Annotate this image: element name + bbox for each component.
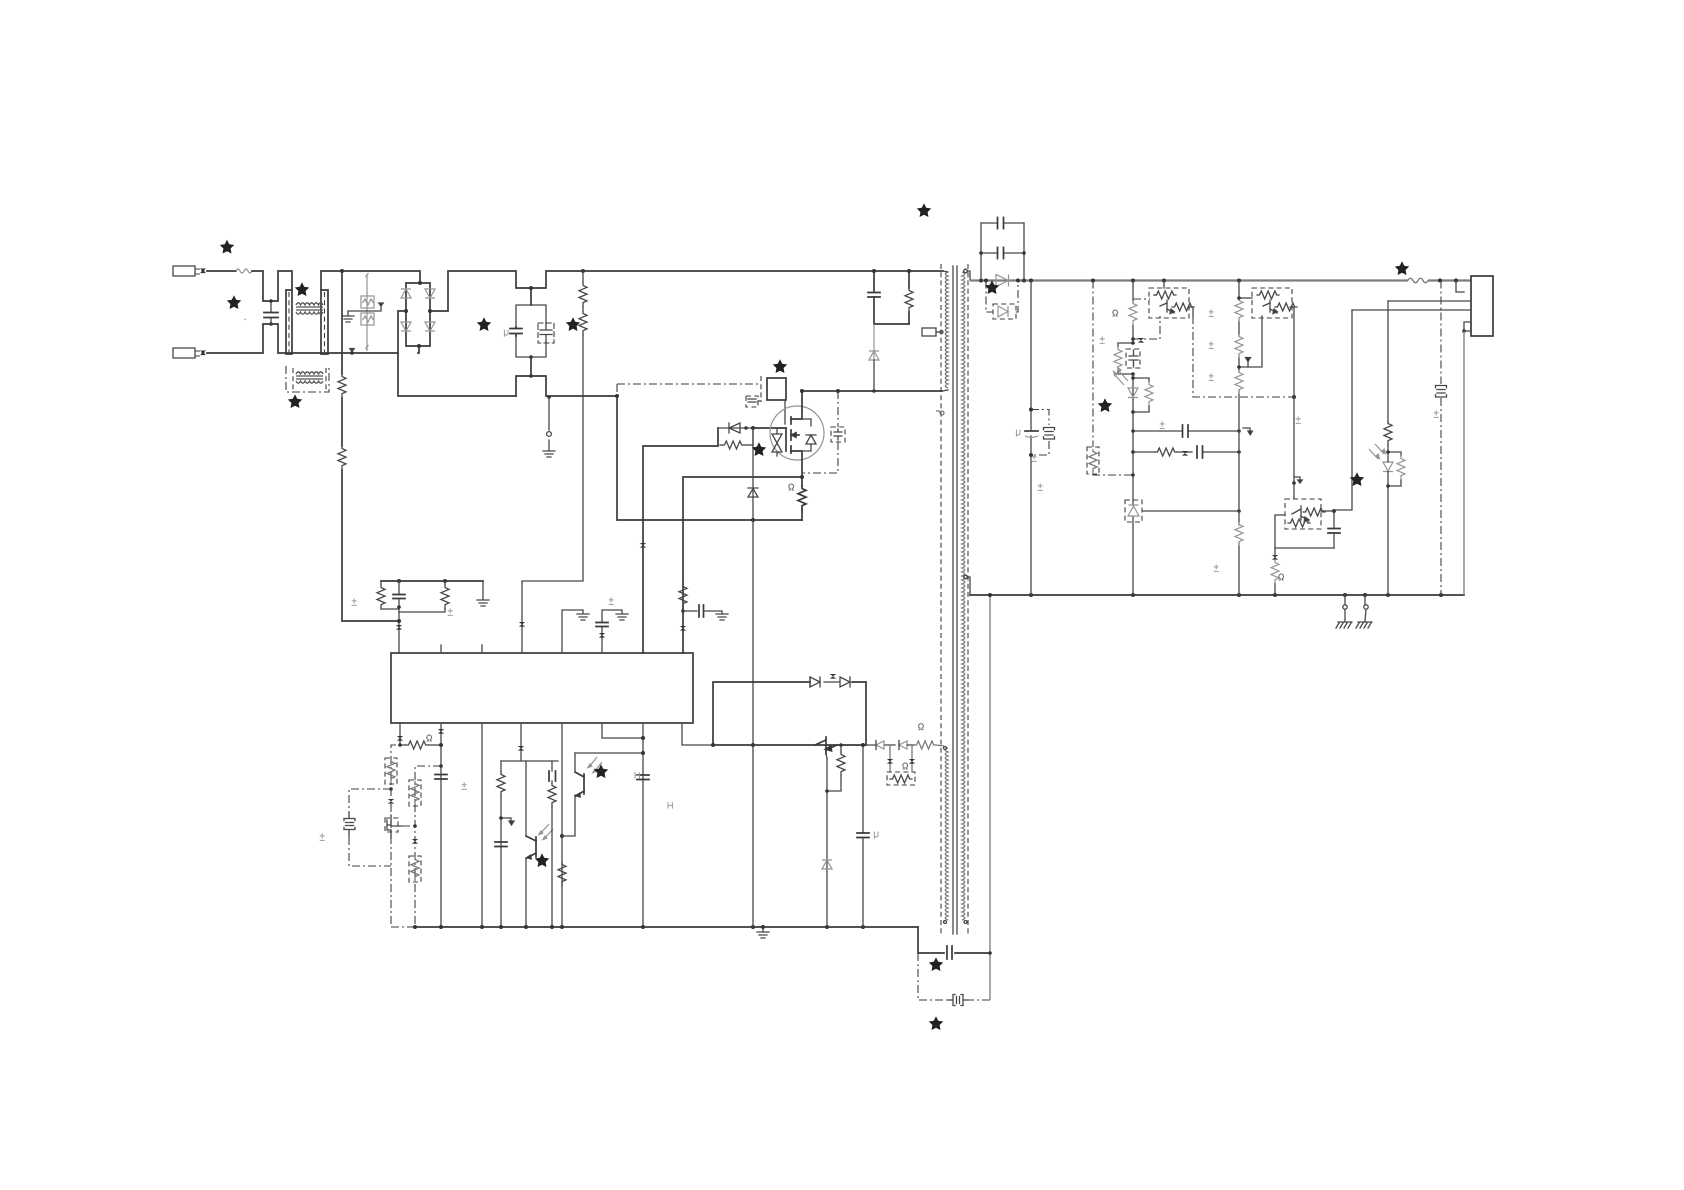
star 1 <box>220 240 234 254</box>
dashed resistor box RB4 <box>1087 447 1099 474</box>
PNP regulator box Q5 <box>1285 499 1325 529</box>
CY2 cap in dashed box <box>948 995 968 1006</box>
opto1 feed line <box>525 761 527 836</box>
feedback cap C14 <box>1328 511 1340 548</box>
bowtie on neutral near arrester <box>350 349 354 355</box>
jog wire under IC <box>501 760 558 762</box>
DC+ rail right of snubber <box>874 270 943 272</box>
secondary top pin <box>964 269 970 280</box>
ferrite bead on + rail <box>1408 278 1428 283</box>
wire bridge bottom stub <box>418 346 419 353</box>
dash-dot clamp connections <box>802 391 838 473</box>
Q5 base network <box>1275 515 1334 548</box>
choke lower coil pair <box>293 368 326 390</box>
IC vcc pin to aux wire <box>682 723 713 745</box>
driver input cap (dashed box) <box>746 396 761 407</box>
wire bridge plus up to DC+ <box>430 271 874 311</box>
greek omega label R21 <box>1279 574 1284 580</box>
output filter line x1031 <box>1030 281 1032 596</box>
gate clamp cap in dashed box <box>831 427 845 442</box>
feedback divider line x1133 <box>1132 281 1134 596</box>
gate zener stack on gate line <box>748 428 758 520</box>
IC pin x521 <box>520 723 522 761</box>
gate series diode D5 <box>718 423 753 433</box>
LED emission arrows <box>1114 367 1128 385</box>
primary pin marker <box>936 411 944 415</box>
RC pair cap dashed box C13 <box>1126 349 1140 368</box>
IC pin line x482 <box>481 723 483 927</box>
output rectifier D12 <box>996 275 1009 287</box>
aux series resistor R12 <box>914 741 944 749</box>
test bracket row1 <box>1243 428 1252 435</box>
driver dashed pin rail <box>760 376 762 402</box>
RC row right end to ground <box>482 581 484 599</box>
bulk capacitor C1 frame <box>516 305 546 357</box>
bridge mid nodes <box>404 309 408 313</box>
star 11 <box>1098 398 1112 412</box>
node RC row right <box>443 579 447 583</box>
ground RC row <box>477 600 489 606</box>
star 15 <box>535 853 549 867</box>
node drain <box>800 389 804 393</box>
bulk cap dashed twin C2 <box>538 323 554 343</box>
star 3 <box>295 282 309 296</box>
node on CS line <box>681 609 685 613</box>
resistor R8 <box>398 741 441 749</box>
wire N under choke <box>286 352 398 354</box>
resistor R20 <box>1235 522 1243 546</box>
IC pin stub tick 2 <box>481 645 483 653</box>
primary ground rail <box>415 926 918 928</box>
divider line x1239 <box>1238 281 1240 596</box>
bowtie on VCC feed <box>519 622 525 627</box>
capacitor C8 on x643 <box>637 775 649 780</box>
Q5 right node <box>1321 510 1334 512</box>
LED arrows <box>1369 444 1385 459</box>
greek omega label R8 <box>427 735 432 741</box>
transformer T1 dashed boundary <box>941 264 968 936</box>
bridge diode D2 <box>425 289 435 298</box>
aux winding <box>945 748 948 920</box>
resistor R3 <box>399 581 449 612</box>
test bracket on comp <box>499 816 514 825</box>
opto2 emitter wire <box>562 795 575 836</box>
bowtie on gate-feed pin <box>396 625 402 630</box>
output connector CN1 <box>1471 276 1493 336</box>
diode to drain wire <box>873 360 875 391</box>
transistor box Q4 <box>1237 288 1297 499</box>
bulk cap bottom node to DC- <box>516 357 617 396</box>
winding sense label box <box>922 328 943 336</box>
twin cap dashed box <box>1029 408 1055 458</box>
primary top hook <box>943 271 948 272</box>
aux supply wire <box>713 744 866 746</box>
filter cap C12 plates <box>1025 430 1038 432</box>
choke top coil pair <box>296 303 323 314</box>
secondary mid pin <box>964 575 970 595</box>
CS filter cap C4 <box>683 605 722 617</box>
snubber cap C5 <box>868 271 880 324</box>
base resistor R11 <box>827 743 845 791</box>
node DC+ at bleeder <box>581 269 585 273</box>
dashed resistor box RB2 <box>409 780 421 806</box>
star 14 <box>594 764 608 778</box>
polarity mark at J1 <box>200 269 206 274</box>
coupling row 2 R16 and cap <box>1131 446 1241 458</box>
gate-source zener pair <box>772 428 782 456</box>
star 7 <box>773 359 787 373</box>
star 13 <box>1350 472 1364 486</box>
IC pin line x643 <box>642 723 644 927</box>
opto1 light arrows <box>539 824 553 840</box>
Q4 emitter drop <box>1237 316 1262 369</box>
jog into tab <box>1456 281 1464 293</box>
RC row top wire <box>381 580 483 582</box>
dash-dot shield line <box>1440 281 1442 596</box>
common-mode choke LF1 right winding <box>321 290 328 354</box>
IC pin line x441 <box>440 723 442 927</box>
comp network R9 <box>497 761 505 927</box>
gray plus marks column <box>1032 309 1219 571</box>
bridge diode D4 <box>425 322 435 331</box>
RC pair R14 <box>1114 343 1133 374</box>
wire bridge minus to DC- rail <box>398 311 516 396</box>
dash-dot sense branch <box>391 745 396 926</box>
ground primary <box>757 925 769 938</box>
bridge rectifier BD1 frame <box>406 283 430 346</box>
zener D9 <box>822 860 832 869</box>
shield cap dashed box <box>1436 386 1447 398</box>
aux top hook <box>944 747 947 750</box>
ground CS cap <box>716 614 728 620</box>
transistor box Q3 <box>1149 281 1194 319</box>
loop diode D8 <box>824 677 850 687</box>
capacitor C6 on x441 <box>435 775 447 780</box>
connector wire pin3 <box>1388 300 1471 302</box>
bulk cap top node <box>530 288 532 305</box>
greek omega label R12 <box>918 724 923 730</box>
Q5 collector bracket <box>1292 477 1302 485</box>
ground at ref cap <box>616 614 628 620</box>
rail dots <box>979 279 1458 283</box>
node feed join <box>397 605 401 609</box>
star 5 <box>477 317 491 331</box>
greek omega label R6 <box>789 484 794 490</box>
secondary + rail <box>970 279 1471 281</box>
resistor R10 <box>558 862 566 886</box>
bulk cap C1 plates <box>510 327 522 336</box>
nodes x441 <box>439 743 443 747</box>
dash-dot from Q3 <box>1193 316 1294 397</box>
dashed resistor box RB1 <box>385 758 397 784</box>
snubber node dots <box>872 269 876 273</box>
common-mode choke LF1 left winding <box>286 290 292 354</box>
optocoupler U3 phototransistor <box>575 753 584 797</box>
greek mu label C1 <box>504 330 508 337</box>
wire gate to MOSFET <box>753 427 786 429</box>
connector J2 (AC neutral) <box>173 348 200 358</box>
gray link down from secondary ground <box>989 595 991 1000</box>
resistor R2 <box>377 581 399 609</box>
primary bottom hook <box>942 390 948 391</box>
node DC- at x617 <box>615 394 619 398</box>
opto2 collector wire <box>575 752 643 754</box>
MOV / surge arrester (light) <box>361 273 374 351</box>
dashed resistor box RB3 <box>409 856 421 882</box>
vertical link DC- to driver return <box>616 384 618 397</box>
star 10 <box>985 280 999 294</box>
opto feed line x1388 <box>1387 301 1389 595</box>
connector return line <box>1463 331 1465 595</box>
bowtie timing pin <box>397 736 403 741</box>
resistor R18 <box>1235 334 1243 358</box>
wire N from J2 to notch <box>207 324 286 353</box>
node dash-dot join <box>1131 473 1135 477</box>
sense filter resistor R5 <box>679 584 687 608</box>
bowtie on CS line <box>680 626 686 631</box>
IC vcc pin bracket to ground <box>562 610 583 653</box>
Y-snubber ladder left leg <box>980 223 982 281</box>
bowtie on drive line <box>640 543 646 548</box>
Y-snubber right leg <box>1023 223 1025 281</box>
ground for surge arrester <box>342 316 354 322</box>
dash-dot divider line x1093 <box>1093 281 1133 476</box>
bowtie x441 <box>438 729 444 734</box>
node RC <box>1131 341 1135 345</box>
capacitor C3 <box>393 581 405 653</box>
nodes x643 <box>641 736 645 740</box>
LED parallel resistor R15 <box>1131 376 1153 414</box>
VCC return line x753 <box>752 520 754 927</box>
snubber resistor R7 <box>905 271 913 324</box>
aux rect diode D10 <box>866 741 895 750</box>
startup divider resistor Ra <box>338 374 346 398</box>
primary winding <box>945 272 948 388</box>
bowtie between loop diodes <box>830 674 836 679</box>
aux rect diode D11 <box>899 741 914 750</box>
IC pin stub tick 1 <box>440 645 442 653</box>
greek mu label C12 <box>1016 430 1020 437</box>
star 6 <box>566 317 580 331</box>
opto LED D14 <box>1128 388 1138 398</box>
IC gate drive pin line up <box>643 428 718 653</box>
bridge diode D3 <box>401 322 411 331</box>
loop diode D7 <box>810 677 820 687</box>
comp cap C7 <box>495 842 507 847</box>
opto LED D15 <box>1383 452 1393 486</box>
snubber diode D6 <box>869 324 879 360</box>
controller IC U1 <box>391 653 693 723</box>
MOSFET body diode <box>802 419 816 451</box>
dashed parallel diode D13 <box>986 281 1018 313</box>
IC pin x602 jog <box>602 723 643 738</box>
dashed resistor across D11 <box>887 745 915 785</box>
base lower resistor R21 <box>1271 548 1279 595</box>
RC chain x552 cap plates <box>548 761 556 927</box>
left dashed cap box network <box>349 789 391 866</box>
chassis ground stub 1 <box>1336 595 1352 628</box>
greek mu label C9 <box>874 832 878 839</box>
polarity mark at J2 <box>200 351 206 356</box>
LED parallel resistor R23 <box>1386 450 1405 488</box>
star 16 <box>929 957 943 971</box>
bowtie below node <box>388 799 394 804</box>
secondary bottom hook <box>964 921 967 924</box>
FET gate tie <box>402 825 415 827</box>
star 2 <box>227 295 241 309</box>
chassis ground stub 2 <box>1356 595 1372 628</box>
opto2 light arrows <box>588 757 602 773</box>
star 8 <box>752 442 766 456</box>
transformer core lines <box>953 266 957 934</box>
arrester ground tap <box>348 303 383 316</box>
gate resistor R4 <box>718 428 753 449</box>
series resistor R22 <box>1384 421 1392 445</box>
star 12 <box>1395 261 1409 275</box>
sense line from connector <box>1334 310 1352 510</box>
dash-dot drive return line <box>617 383 761 385</box>
connector J1 (AC line) <box>173 266 200 276</box>
choke lower dashed box <box>286 366 329 392</box>
wire L from J1 to fuse <box>207 270 236 272</box>
dash-dot base link <box>1131 299 1160 343</box>
aux bottom hook <box>944 921 947 924</box>
node on return wire <box>751 518 755 522</box>
bowtie on ref pin <box>599 633 605 638</box>
D13 diode in dashed box <box>993 304 1016 319</box>
IC pin line x562 <box>561 723 563 927</box>
fuse F1 <box>236 269 252 273</box>
gate driver coupler box <box>767 378 786 400</box>
snubber cap C10 (top rung) <box>981 218 1024 229</box>
source return wire <box>617 397 802 520</box>
base line down <box>826 758 828 927</box>
CS sense wire to IC <box>683 477 802 653</box>
pass transistor Q2 <box>815 737 837 758</box>
capacitor CX1 <box>264 299 278 326</box>
node crossing aux wire <box>751 743 755 747</box>
star 17 <box>929 1016 943 1030</box>
CY link: rail to secondary ground <box>918 927 990 953</box>
node opto2 emitter join <box>560 834 564 838</box>
MOSFET Q1 circle <box>770 406 824 460</box>
startup divider resistor Rb <box>338 446 346 470</box>
bowtie branch2 <box>412 839 418 844</box>
bowtie base <box>1272 555 1278 560</box>
node RC row left <box>397 579 401 583</box>
MOSFET Q1 symbol <box>786 391 802 477</box>
connector tab bottom <box>1464 322 1471 331</box>
optocoupler U2 phototransistor <box>526 836 536 927</box>
ground at vcc bracket <box>577 614 589 620</box>
bridge node top <box>418 281 422 285</box>
rail node dots <box>413 925 865 929</box>
twin cap in dashed box <box>344 813 355 837</box>
dash-dot rail tail <box>391 926 415 928</box>
wire L from choke to bridge top <box>321 271 420 290</box>
node on L wire feeding startup line <box>340 269 344 273</box>
bridge node bottom <box>417 344 421 348</box>
shunt regulator U4 (TL431) <box>1125 500 1241 522</box>
dash-dot branch 2 <box>415 766 441 926</box>
bridge diode D1 <box>401 289 411 298</box>
earth ground symbol <box>543 451 555 457</box>
node on dash-dot <box>389 787 393 791</box>
IC ref pin cap to ground <box>596 610 622 653</box>
dash-dot CY2 path <box>918 953 990 1000</box>
wire L fuse to X-cap notch <box>252 271 292 301</box>
coupling cap row 1 <box>1131 425 1241 437</box>
resistor R17 <box>1235 298 1243 322</box>
snubber cap C11 (mid rung) <box>979 248 1026 259</box>
greek omega label R13 <box>1113 310 1118 316</box>
gray plus IC area <box>244 319 1438 841</box>
vcc cap C9 <box>857 743 869 927</box>
resistor R13 <box>1129 301 1137 325</box>
greek omega label RB5 <box>903 763 908 769</box>
secondary ground rail <box>970 594 1464 596</box>
resistor R19 <box>1235 370 1243 394</box>
startup resistor R1 on bleeder line <box>522 271 587 653</box>
secondary winding <box>962 272 965 920</box>
aux bypass diode loop <box>713 682 866 745</box>
CY capacitor plates <box>947 946 952 959</box>
sense resistor R6 <box>798 477 806 520</box>
node gate <box>751 426 755 430</box>
connector wire pin4 <box>1352 309 1471 311</box>
bowtie x521 <box>518 746 524 751</box>
driver to gate link <box>784 400 786 424</box>
snubber bottom tie <box>874 323 909 325</box>
source node <box>800 475 804 479</box>
wire from DC+ node down to RC row <box>342 271 399 621</box>
star 4 <box>288 394 302 408</box>
earth stub from DC- <box>548 397 550 450</box>
IC pin timing stub <box>399 723 401 745</box>
protection FET in dashed outline <box>385 815 402 838</box>
drain wire to transformer <box>802 390 942 392</box>
star 9 <box>917 203 931 217</box>
